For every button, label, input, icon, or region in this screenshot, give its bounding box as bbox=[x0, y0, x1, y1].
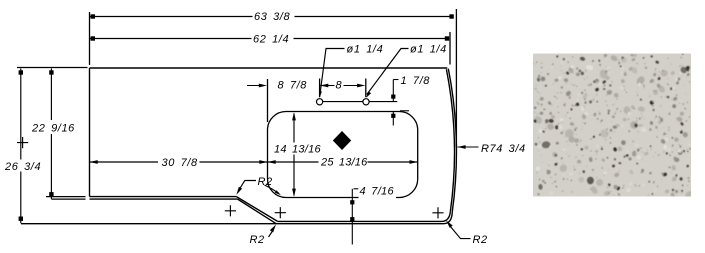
countertop diagonal edge upper line bbox=[236, 197, 277, 222]
extension line through faucet hole 2 bbox=[365, 79, 367, 98]
dimension 8 7/8 tail line bbox=[247, 85, 263, 87]
dimension 25 13/16 line bbox=[268, 161, 418, 163]
svg-text:ø1 1/4: ø1 1/4 bbox=[410, 43, 447, 55]
dimension 62 1/4 line bbox=[90, 38, 448, 40]
faucet hole 2 circle bbox=[363, 99, 369, 105]
countertop right curved edge R74 3/4 inner line bbox=[446, 69, 454, 212]
dimension 22 9/16 line bbox=[50, 69, 52, 200]
R2 curved leader to sink corner bbox=[265, 185, 280, 194]
R74 3/4 leader line bbox=[458, 146, 479, 148]
dimension 14 13/16 arrow down bbox=[292, 189, 296, 197]
svg-text:R2: R2 bbox=[473, 234, 488, 246]
svg-text:R74 3/4: R74 3/4 bbox=[481, 143, 526, 155]
center mark cross for R74 3/4 arc bbox=[17, 137, 28, 148]
dimension 8 7/8 arrow pointing right at sink edge bbox=[259, 84, 267, 88]
countertop bottom edge outer line with 26 3/4 extension bbox=[21, 212, 452, 224]
svg-text:14 13/16: 14 13/16 bbox=[274, 143, 321, 155]
R2 lower leader line bbox=[269, 230, 274, 238]
faucet hole 1 circle bbox=[317, 99, 323, 105]
R2 lower leader arrow bbox=[270, 225, 276, 233]
extension line horizontal left of top-left corner bbox=[17, 67, 88, 69]
dimension 8 line right segment bbox=[344, 85, 362, 87]
dimension 1 7/8 square terminator above bbox=[391, 95, 395, 99]
countertop top edge bbox=[90, 67, 448, 69]
dimension 25 13/16 arrow right bbox=[410, 160, 418, 164]
dimension 63 3/8 square terminator left bbox=[91, 14, 95, 18]
dimension 1 7/8 square terminator below bbox=[391, 114, 395, 118]
dimension 30 7/8 arrow left bbox=[90, 160, 98, 164]
extension line left vertical above top-left corner bbox=[89, 12, 91, 65]
R2 curved leader arrow bbox=[275, 190, 281, 195]
svg-text:26 3/4: 26 3/4 bbox=[4, 161, 41, 173]
sink center diamond symbol bbox=[333, 131, 351, 150]
dimension 8 line left segment bbox=[320, 85, 334, 87]
center mark cross at bottom-right corner bbox=[432, 207, 443, 218]
center mark cross at notch lower corner bbox=[275, 207, 286, 218]
extension line through faucet hole 1 bbox=[319, 79, 321, 98]
svg-text:8 7/8: 8 7/8 bbox=[278, 79, 308, 91]
extension line for 62 1/4 at top-right corner bbox=[449, 32, 451, 65]
dimension 4 7/16 square terminator lower bbox=[350, 217, 354, 221]
dimension 8 arrow right bbox=[357, 84, 365, 88]
material swatch bbox=[532, 53, 695, 200]
sink top edge extension line right bbox=[400, 110, 409, 112]
svg-text:30 7/8: 30 7/8 bbox=[162, 157, 198, 169]
svg-text:8: 8 bbox=[336, 79, 343, 91]
dimension 30 7/8 arrow right bbox=[259, 160, 267, 164]
dimension 1 7/8 leader tick to text bbox=[393, 79, 398, 81]
R2 upper leader line to notch corner bbox=[238, 181, 256, 192]
svg-text:1 7/8: 1 7/8 bbox=[401, 75, 431, 87]
dimension 62 1/4 square terminator right bbox=[445, 36, 449, 40]
svg-text:62 1/4: 62 1/4 bbox=[253, 34, 289, 46]
svg-text:R2: R2 bbox=[258, 176, 273, 188]
countertop bottom edge upper line (left section) bbox=[90, 196, 237, 198]
svg-text:4 7/16: 4 7/16 bbox=[360, 186, 395, 198]
svg-text:22 9/16: 22 9/16 bbox=[31, 122, 75, 134]
dimension 14 13/16 arrow up bbox=[292, 112, 296, 120]
extension line at sink left edge for 8 7/8 bbox=[267, 79, 269, 122]
dimension 1 7/8 vertical line below bbox=[392, 112, 394, 126]
dimension 14 13/16 line bbox=[293, 114, 295, 196]
R2 bottom-right leader arrow bbox=[446, 220, 453, 228]
dimension 26 3/4 square terminator bottom bbox=[19, 217, 23, 221]
dimension 4 7/16 vertical line bbox=[351, 189, 353, 245]
dimension 22 9/16 square terminator bottom bbox=[49, 192, 53, 196]
dimension 4 7/16 tick to text bbox=[354, 188, 359, 190]
dimension 26 3/4 square terminator top bbox=[19, 70, 23, 74]
leader for first hole diameter label bbox=[320, 49, 345, 96]
svg-text:25 13/16: 25 13/16 bbox=[320, 157, 368, 169]
R2 bottom-right leader line bbox=[450, 226, 471, 239]
dimension 63 3/8 line bbox=[90, 16, 452, 18]
dimension 26 3/4 line bbox=[20, 69, 22, 224]
dimension 25 13/16 arrow left bbox=[268, 160, 276, 164]
countertop diagonal edge lower line bbox=[238, 199, 277, 224]
dimension 62 1/4 square terminator left bbox=[91, 36, 95, 40]
dimension 1 7/8 vertical line above bbox=[392, 80, 394, 102]
dimension 22 9/16 square terminator top bbox=[49, 70, 53, 74]
R2 upper leader arrow bbox=[236, 187, 242, 195]
R74 3/4 leader arrow bbox=[457, 145, 465, 149]
extension line at y=196.5 left of countertop bbox=[46, 196, 86, 198]
dimension 8 arrow left bbox=[320, 84, 328, 88]
countertop left edge bbox=[89, 68, 91, 197]
dimension 30 7/8 line bbox=[90, 161, 268, 163]
countertop bottom edge inner line (right section) bbox=[278, 212, 451, 222]
dimension 63 3/8 square terminator right bbox=[449, 14, 453, 18]
extension line at y=199 left of countertop bbox=[51, 198, 85, 200]
leader for second hole diameter label bbox=[367, 49, 409, 95]
faucet hole center line bbox=[323, 101, 398, 103]
leader arrow at faucet hole 2 bbox=[366, 92, 371, 98]
svg-text:63 3/8: 63 3/8 bbox=[254, 11, 290, 23]
dimension 4 7/16 square terminator upper bbox=[350, 200, 354, 204]
extension line for 63 3/8 at rightmost point of curve bbox=[455, 9, 457, 147]
leader arrow at faucet hole 1 bbox=[319, 91, 322, 98]
countertop right curved edge R74 3/4 outer line bbox=[448, 69, 456, 212]
countertop bottom edge lower line (left section) bbox=[90, 198, 238, 200]
center mark cross at notch upper corner bbox=[225, 205, 236, 216]
sink cutout rounded rectangle bbox=[268, 112, 418, 198]
svg-text:R2: R2 bbox=[250, 234, 265, 246]
svg-text:ø1 1/4: ø1 1/4 bbox=[347, 43, 384, 55]
